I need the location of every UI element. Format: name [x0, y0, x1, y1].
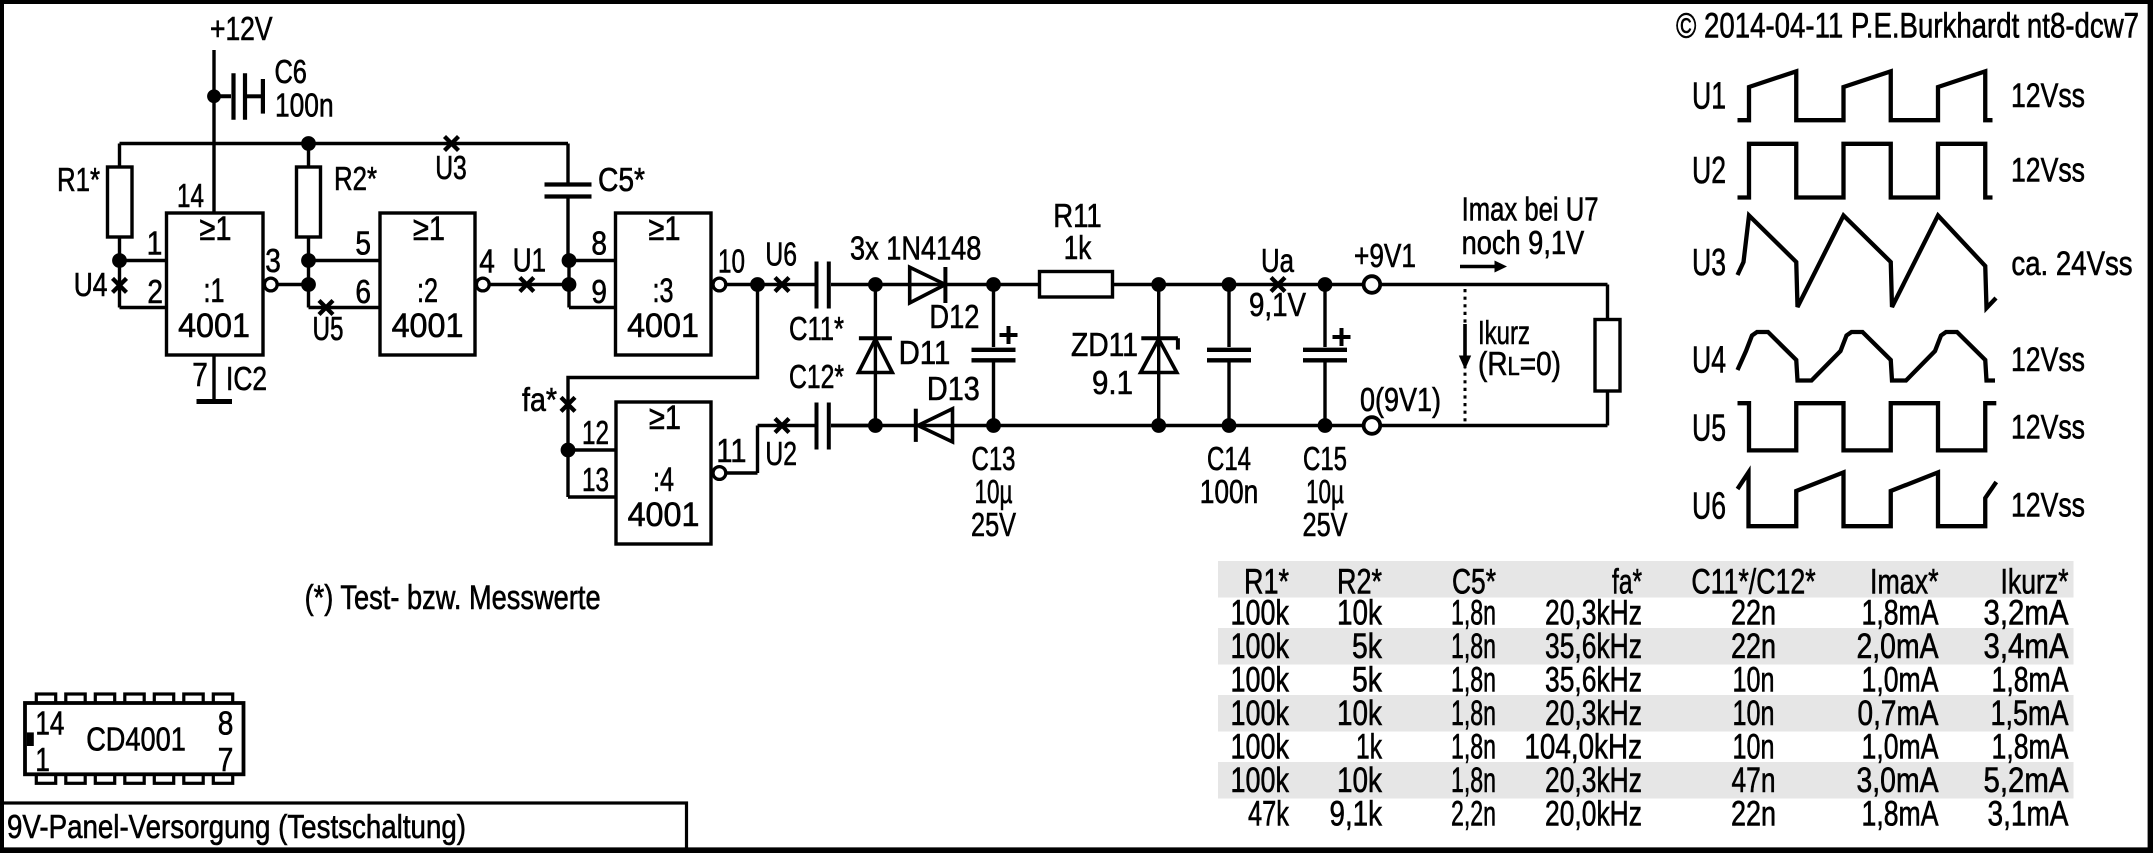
svg-text:10: 10 — [718, 243, 745, 280]
svg-text:U1: U1 — [513, 242, 546, 279]
svg-text:3: 3 — [265, 242, 281, 279]
svg-text:12Vss: 12Vss — [2011, 341, 2085, 379]
svg-text:22n: 22n — [1731, 793, 1776, 833]
svg-text:10µ: 10µ — [1306, 473, 1344, 510]
svg-text:D11: D11 — [899, 334, 951, 371]
svg-text:1: 1 — [147, 224, 163, 261]
svg-text:R1*: R1* — [57, 161, 100, 198]
svg-text:C14: C14 — [1207, 440, 1251, 477]
svg-text:U4: U4 — [74, 266, 108, 303]
svg-text:C13: C13 — [972, 440, 1016, 477]
svg-text:R2*: R2* — [334, 160, 377, 197]
svg-text:U4: U4 — [1692, 340, 1726, 382]
svg-text:3,1mA: 3,1mA — [1988, 793, 2069, 833]
svg-text::2: :2 — [417, 272, 438, 310]
svg-text:D13: D13 — [927, 370, 980, 407]
svg-text:C15: C15 — [1303, 440, 1347, 477]
svg-text:+9V1: +9V1 — [1354, 237, 1416, 274]
svg-text:ZD11: ZD11 — [1071, 326, 1138, 363]
svg-text:U1: U1 — [1692, 76, 1726, 118]
svg-text:C5*: C5* — [598, 161, 645, 198]
svg-text:C6: C6 — [275, 53, 307, 90]
svg-text:≥1: ≥1 — [413, 210, 445, 248]
svg-text:10µ: 10µ — [975, 473, 1013, 510]
svg-text:ca. 24Vss: ca. 24Vss — [2011, 245, 2132, 283]
svg-text:12Vss: 12Vss — [2011, 487, 2085, 525]
svg-text:9: 9 — [591, 273, 607, 310]
svg-text:7: 7 — [192, 356, 208, 393]
svg-text:IC2: IC2 — [226, 360, 267, 397]
svg-text:7: 7 — [218, 741, 234, 778]
svg-text:U3: U3 — [435, 149, 467, 186]
svg-text:8: 8 — [218, 705, 234, 742]
svg-text:U5: U5 — [1692, 408, 1726, 450]
svg-text:1,8mA: 1,8mA — [1862, 793, 1939, 833]
svg-text:≥1: ≥1 — [200, 210, 232, 248]
svg-text:U6: U6 — [765, 236, 797, 273]
svg-text:9,1V: 9,1V — [1249, 286, 1306, 323]
svg-text:C11*: C11* — [789, 310, 844, 347]
svg-text:(RL=0): (RL=0) — [1478, 345, 1561, 382]
svg-text:1: 1 — [35, 741, 50, 778]
svg-text:2: 2 — [147, 273, 163, 310]
svg-text:47k: 47k — [1248, 793, 1289, 833]
svg-text:U2: U2 — [1692, 150, 1726, 192]
svg-text:0(9V1): 0(9V1) — [1360, 381, 1441, 418]
svg-text:9.1: 9.1 — [1092, 364, 1133, 401]
svg-text:4: 4 — [479, 243, 495, 280]
svg-text:25V: 25V — [971, 506, 1016, 543]
svg-text:3x 1N4148: 3x 1N4148 — [850, 230, 981, 267]
svg-text:9V-Panel-Versorgung (Testschal: 9V-Panel-Versorgung (Testschaltung) — [7, 809, 466, 846]
svg-text:6: 6 — [355, 273, 371, 310]
svg-text:D12: D12 — [929, 298, 979, 335]
svg-text::4: :4 — [653, 461, 674, 499]
svg-text:U5: U5 — [313, 310, 344, 347]
svg-text:2,2n: 2,2n — [1451, 793, 1496, 833]
svg-text:9,1k: 9,1k — [1330, 793, 1383, 833]
svg-text:C12*: C12* — [789, 358, 844, 395]
svg-text:CD4001: CD4001 — [86, 721, 186, 758]
svg-text:noch 9,1V: noch 9,1V — [1462, 224, 1585, 261]
svg-text:≥1: ≥1 — [649, 210, 681, 248]
svg-text:12Vss: 12Vss — [2011, 77, 2085, 115]
svg-text:4001: 4001 — [628, 496, 700, 534]
svg-text:+12V: +12V — [210, 10, 273, 47]
svg-text:(*) Test- bzw. Messwerte: (*) Test- bzw. Messwerte — [305, 579, 601, 617]
svg-text:Ua: Ua — [1261, 242, 1295, 279]
svg-text:12Vss: 12Vss — [2011, 151, 2085, 189]
svg-text:25V: 25V — [1303, 506, 1348, 543]
svg-text:12Vss: 12Vss — [2011, 409, 2085, 447]
svg-text:13: 13 — [582, 461, 609, 498]
svg-text::3: :3 — [653, 272, 674, 310]
svg-text:100n: 100n — [275, 87, 334, 124]
svg-text:14: 14 — [35, 705, 64, 742]
svg-text:100n: 100n — [1200, 473, 1259, 510]
svg-text:≥1: ≥1 — [649, 399, 681, 437]
svg-text:11: 11 — [716, 432, 746, 469]
svg-text:12: 12 — [582, 414, 609, 451]
svg-text:5: 5 — [355, 224, 371, 261]
svg-text:4001: 4001 — [627, 307, 699, 345]
svg-text:8: 8 — [591, 224, 607, 261]
svg-text:4001: 4001 — [178, 307, 250, 345]
svg-text:14: 14 — [177, 177, 204, 214]
svg-text:fa*: fa* — [522, 381, 557, 418]
svg-text:Imax bei U7: Imax bei U7 — [1462, 191, 1599, 228]
svg-text:1k: 1k — [1064, 229, 1092, 266]
svg-text:U3: U3 — [1692, 242, 1726, 284]
svg-text::1: :1 — [204, 272, 225, 310]
svg-text:4001: 4001 — [392, 307, 464, 345]
svg-text:© 2014-04-11 P.E.Burkhardt nt8: © 2014-04-11 P.E.Burkhardt nt8-dcw7 — [1676, 6, 2139, 46]
svg-text:U2: U2 — [765, 435, 797, 472]
svg-text:20,0kHz: 20,0kHz — [1545, 793, 1642, 833]
svg-text:U6: U6 — [1692, 486, 1726, 528]
